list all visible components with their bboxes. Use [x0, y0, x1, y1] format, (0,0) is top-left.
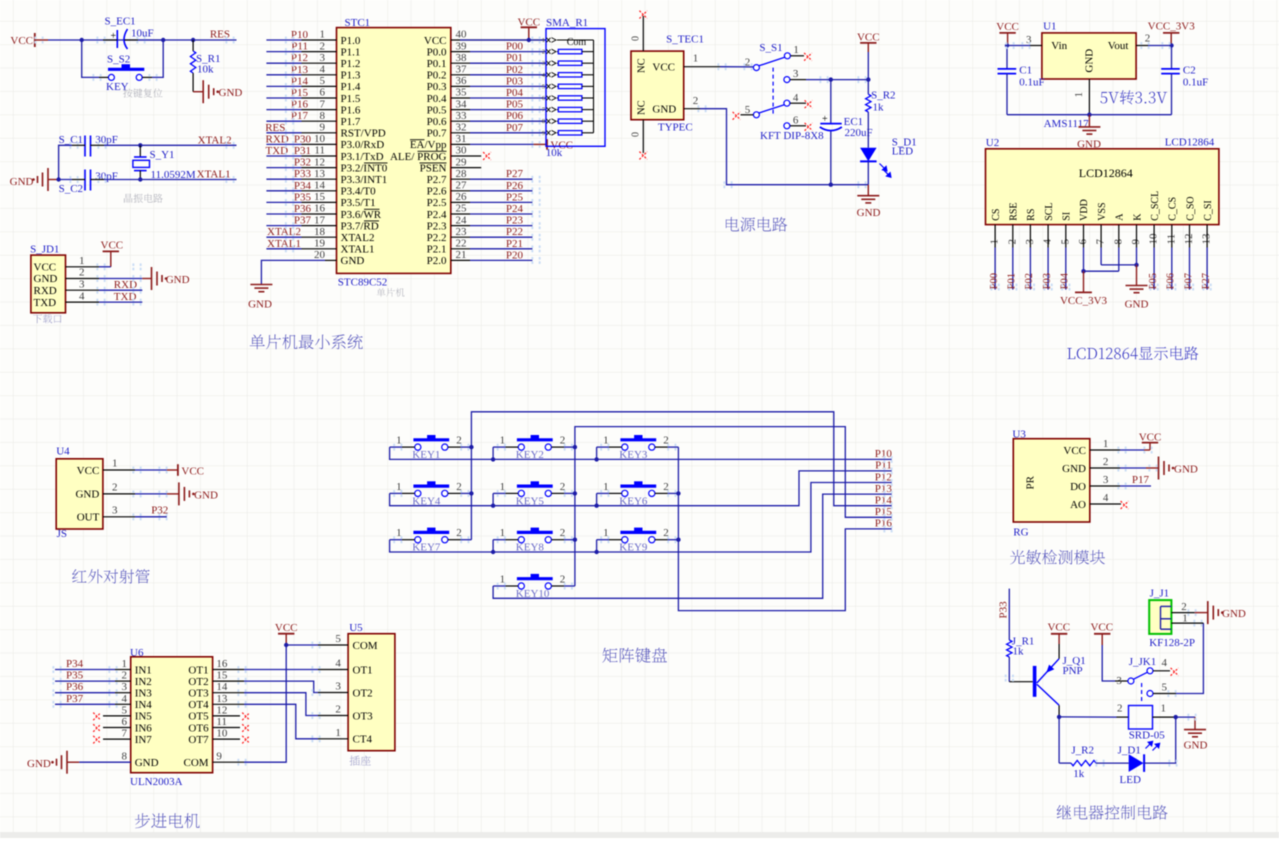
- power port VCC_3V3 (lcd): [1083, 271, 1085, 292]
- pin 3 U4: [103, 516, 135, 518]
- caption 红外对射管: [72, 569, 150, 583]
- caption 单片机最小系统: [250, 334, 363, 349]
- wire KEY7 pin1 leg: [390, 539, 402, 541]
- wire KEY6 drop: [596, 493, 598, 505]
- svg-text:4: 4: [122, 693, 128, 705]
- svg-text:PNP: PNP: [1063, 665, 1083, 677]
- wire KEY2 pin1 leg: [493, 446, 505, 448]
- wire vin left: [1007, 45, 1030, 47]
- ground GND (mcu): [250, 285, 272, 292]
- svg-text:XTAL1: XTAL1: [341, 244, 375, 256]
- svg-text:P1.5: P1.5: [341, 93, 361, 105]
- ground GND (U4): [179, 482, 190, 505]
- svg-text:GND: GND: [75, 489, 99, 501]
- svg-text:SMA_R1: SMA_R1: [546, 17, 588, 29]
- svg-text:2: 2: [1117, 703, 1123, 715]
- svg-text:P2.1: P2.1: [427, 244, 447, 256]
- network common bus: [557, 39, 594, 41]
- svg-text:1: 1: [1182, 612, 1188, 624]
- pin 5 U5: [318, 644, 348, 646]
- pin 1 U4: [103, 469, 135, 471]
- svg-text:3: 3: [122, 681, 128, 693]
- wire collector to coil: [1059, 716, 1116, 718]
- svg-text:10: 10: [314, 133, 326, 145]
- svg-text:4: 4: [79, 290, 85, 302]
- svg-text:P0.2: P0.2: [427, 70, 447, 82]
- wire column1 to P14: [471, 412, 891, 540]
- svg-text:7: 7: [122, 728, 128, 740]
- svg-text:P22: P22: [506, 226, 523, 238]
- wire KEY9 pin2 leg: [668, 539, 679, 541]
- wire vout right: [1148, 45, 1172, 47]
- wire KEY3 drop: [596, 447, 598, 459]
- svg-text:AO: AO: [1070, 499, 1086, 511]
- svg-text:2: 2: [1181, 601, 1187, 613]
- svg-text:P2.7: P2.7: [427, 174, 447, 186]
- svg-text:S_JD1: S_JD1: [30, 243, 59, 255]
- wire P33: [1008, 589, 1010, 640]
- svg-text:P06: P06: [506, 110, 524, 122]
- switch contact 6: [784, 123, 790, 129]
- pin 3 S_JD1: [66, 289, 100, 291]
- switch pole2 common contact 5: [753, 112, 759, 118]
- svg-text:VCC: VCC: [1139, 431, 1162, 443]
- svg-text:VCC: VCC: [181, 465, 204, 477]
- wire KEY7 pin2 leg: [461, 539, 472, 541]
- wire U3 DO P17: [1120, 485, 1151, 487]
- svg-text:P2.5: P2.5: [427, 197, 447, 209]
- svg-text:15: 15: [314, 191, 326, 203]
- svg-text:C_SCL: C_SCL: [1150, 191, 1161, 221]
- wire OT2: [213, 680, 244, 682]
- svg-text:Vin: Vin: [1051, 40, 1067, 52]
- svg-text:SRD-05: SRD-05: [1129, 729, 1166, 741]
- switch pole1 common contact 2: [753, 65, 759, 71]
- wire to GND (relay): [1176, 716, 1195, 718]
- svg-text:P00: P00: [989, 273, 1000, 289]
- pin 1 J_J1: [1171, 622, 1203, 624]
- svg-text:LCD12864: LCD12864: [1165, 136, 1215, 148]
- overbar EA: [410, 139, 425, 141]
- pin 2 U4: [103, 493, 135, 495]
- svg-text:8: 8: [542, 118, 545, 125]
- node junction RES: [191, 38, 195, 42]
- svg-text:2: 2: [79, 267, 85, 279]
- svg-text:Com: Com: [567, 37, 587, 48]
- stubs IN5-IN7 with no-ERC: [103, 715, 131, 717]
- svg-text:P33: P33: [998, 601, 1010, 619]
- node junction VDD: [1081, 269, 1085, 273]
- no-ERC marker contact5: [733, 112, 741, 120]
- wire column3 to P16: [678, 447, 891, 610]
- svg-text:IN5: IN5: [135, 711, 153, 723]
- svg-text:VCC_3V3: VCC_3V3: [1060, 295, 1108, 307]
- pin 0 bottom S_TEC1: [642, 120, 644, 153]
- wire contact5 to J_J1: [1176, 623, 1203, 693]
- pin 0 top S_TEC1: [642, 16, 644, 51]
- svg-text:P21: P21: [506, 238, 523, 250]
- svg-text:30: 30: [456, 145, 468, 157]
- svg-text:LED: LED: [1120, 774, 1141, 786]
- svg-text:1k: 1k: [1073, 768, 1085, 780]
- svg-text:4: 4: [793, 92, 799, 104]
- svg-text:1: 1: [793, 44, 799, 56]
- pins STC1 left wires: [302, 39, 337, 41]
- switch contact 4: [784, 100, 790, 106]
- svg-text:U1: U1: [1043, 21, 1056, 33]
- wire KEY10 pin1 leg: [493, 585, 505, 587]
- svg-text:5: 5: [745, 104, 751, 116]
- svg-text:8: 8: [320, 110, 326, 122]
- svg-text:P3.0/RxD: P3.0/RxD: [341, 139, 385, 151]
- svg-text:5: 5: [320, 75, 326, 87]
- ground GND (lcd): [1136, 265, 1138, 286]
- svg-text:P07: P07: [1183, 273, 1194, 289]
- svg-text:6: 6: [122, 716, 128, 728]
- network pin glyphs: [547, 38, 557, 43]
- ground GND (J_J1): [1208, 601, 1219, 624]
- svg-text:25: 25: [456, 203, 468, 215]
- node junction cap-right: [161, 38, 165, 42]
- wire KEY1 pin2 leg: [461, 446, 472, 448]
- svg-text:17: 17: [314, 214, 326, 226]
- caption LCD12864显示电路: [1067, 346, 1198, 360]
- wire KEY8 pin1 leg: [493, 539, 505, 541]
- caption 单片机: [377, 288, 405, 297]
- svg-text:OT4: OT4: [188, 699, 209, 711]
- svg-text:P27: P27: [506, 168, 524, 180]
- pin 2 J_J1: [1171, 612, 1194, 614]
- svg-text:40: 40: [456, 29, 468, 41]
- wire KEY2 pin2 leg: [564, 446, 575, 448]
- svg-text:2: 2: [320, 40, 326, 52]
- wire VCC to common: [1102, 645, 1115, 681]
- svg-text:36: 36: [456, 75, 468, 87]
- svg-text:P3.4/T0: P3.4/T0: [341, 186, 377, 198]
- svg-text:P1.2: P1.2: [341, 58, 361, 70]
- svg-text:GND: GND: [248, 299, 272, 311]
- svg-text:OT3: OT3: [353, 710, 374, 722]
- svg-text:LED: LED: [892, 145, 913, 157]
- power port VCC (U4): [177, 464, 179, 476]
- svg-text:ULN2003A: ULN2003A: [130, 776, 183, 788]
- svg-text:P3.2/INT0: P3.2/INT0: [341, 162, 388, 174]
- svg-text:OT3: OT3: [188, 688, 209, 700]
- node junction C1 top: [1005, 43, 1009, 47]
- svg-text:GND: GND: [194, 489, 218, 501]
- wire contact3 to VCC node: [806, 79, 868, 81]
- svg-text:P1.0: P1.0: [341, 35, 361, 47]
- svg-text:C2: C2: [1183, 64, 1196, 76]
- svg-text:P0.6: P0.6: [427, 116, 447, 128]
- wire U6 COM to VCC: [213, 761, 244, 763]
- svg-text:OT1: OT1: [188, 664, 208, 676]
- wire KEY8 drop: [492, 540, 494, 552]
- svg-text:1: 1: [320, 29, 326, 41]
- svg-text:P3.5/T1: P3.5/T1: [341, 197, 376, 209]
- no-ERC marker U3 AO: [1121, 501, 1129, 509]
- svg-text:P37: P37: [294, 215, 312, 227]
- svg-text:AMS1117: AMS1117: [1044, 118, 1090, 130]
- node junction crystal gnd: [56, 177, 60, 181]
- svg-text:1: 1: [1161, 703, 1167, 715]
- caption 继电器控制电路: [1057, 805, 1168, 820]
- no-ERC marker contact1: [804, 53, 812, 61]
- svg-text:VCC: VCC: [101, 240, 124, 252]
- wire K pin9: [1136, 248, 1138, 265]
- overbar RD: [364, 220, 379, 222]
- wire OT1: [213, 669, 244, 671]
- ground GND (power): [867, 185, 869, 196]
- svg-text:1k: 1k: [873, 102, 885, 114]
- svg-text:P0.1: P0.1: [427, 58, 447, 70]
- svg-text:ALE/ PROG: ALE/ PROG: [390, 151, 447, 163]
- svg-text:S_S2: S_S2: [107, 54, 130, 66]
- wire KEY9 pin1 leg: [597, 539, 609, 541]
- svg-text:GND: GND: [34, 273, 58, 285]
- overbar WR: [364, 208, 380, 210]
- svg-text:COM: COM: [184, 757, 209, 769]
- svg-text:C_CS: C_CS: [1168, 197, 1179, 221]
- svg-text:P2.2: P2.2: [427, 232, 447, 244]
- svg-text:14: 14: [216, 681, 228, 693]
- node junction C2 top: [1169, 43, 1173, 47]
- svg-text:P37: P37: [66, 693, 84, 705]
- svg-text:3: 3: [320, 52, 326, 64]
- svg-text:KF128-2P: KF128-2P: [1149, 637, 1195, 649]
- network resistor element 6: [557, 109, 558, 111]
- wire VCC to node: [48, 39, 163, 41]
- svg-text:3: 3: [793, 68, 799, 80]
- svg-text:3: 3: [1116, 675, 1122, 687]
- wire J_R1 to base: [1008, 657, 1010, 682]
- svg-text:GND: GND: [1084, 49, 1096, 73]
- relay coil pin 1: [1153, 716, 1176, 718]
- svg-text:10k: 10k: [197, 64, 214, 76]
- network resistor element 8: [557, 132, 558, 134]
- svg-text:VCC_3V3: VCC_3V3: [1148, 21, 1196, 33]
- caption 光敏检测模块: [1010, 550, 1105, 565]
- wire collector branch down: [1058, 717, 1060, 763]
- svg-text:GND: GND: [27, 758, 51, 770]
- svg-text:IN2: IN2: [135, 676, 152, 688]
- wire rail3 to P12: [390, 483, 892, 553]
- svg-text:OT2: OT2: [188, 676, 208, 688]
- svg-text:P25: P25: [506, 191, 524, 203]
- wire U4 gnd: [135, 493, 167, 495]
- svg-text:11: 11: [216, 716, 227, 728]
- svg-text:VCC: VCC: [857, 31, 880, 43]
- svg-text:IN4: IN4: [135, 699, 153, 711]
- svg-text:P17: P17: [1132, 474, 1150, 486]
- wire rail KEY10 to P13: [493, 494, 892, 598]
- svg-text:XTAL2: XTAL2: [341, 232, 375, 244]
- network resistor element 1: [557, 51, 558, 53]
- no-ERC marker relay 4: [1171, 668, 1179, 676]
- svg-text:U5: U5: [349, 622, 363, 634]
- svg-text:GND: GND: [1125, 298, 1149, 310]
- svg-text:1: 1: [693, 53, 699, 65]
- svg-text:P1.7: P1.7: [341, 116, 361, 128]
- svg-text:P07: P07: [506, 122, 524, 134]
- wire KEY8 pin2 leg: [564, 539, 575, 541]
- svg-text:13: 13: [216, 693, 228, 705]
- node junction EC1 top: [829, 77, 833, 81]
- node junctions rail1: [491, 457, 495, 461]
- no-ERC marker contact6: [805, 123, 813, 131]
- caption 步进电机: [135, 813, 200, 828]
- svg-text:P1.6: P1.6: [341, 104, 361, 116]
- svg-text:12: 12: [216, 704, 227, 716]
- svg-text:10uF: 10uF: [131, 28, 154, 40]
- svg-text:4: 4: [1162, 657, 1168, 669]
- svg-text:5: 5: [335, 633, 341, 645]
- svg-text:19: 19: [314, 238, 326, 250]
- svg-text:U2: U2: [986, 137, 999, 149]
- svg-text:11: 11: [314, 145, 325, 157]
- wire XTAL1: [104, 179, 237, 181]
- wire RXD: [99, 289, 142, 291]
- wire rail2 to P11: [390, 471, 892, 506]
- svg-text:S_R2: S_R2: [871, 89, 895, 101]
- svg-text:P02: P02: [1024, 273, 1035, 289]
- wire PSEN stub: [451, 167, 481, 169]
- wire EA/Vpp to VCC: [451, 143, 470, 145]
- svg-text:S_C2: S_C2: [59, 183, 83, 195]
- svg-text:NC: NC: [637, 58, 648, 73]
- network resistor element 3: [557, 74, 558, 76]
- svg-text:GND: GND: [341, 255, 365, 267]
- svg-text:P12: P12: [875, 471, 892, 483]
- svg-text:9: 9: [216, 751, 222, 763]
- node junction K: [1134, 263, 1138, 267]
- svg-text:VCC: VCC: [1090, 622, 1113, 634]
- svg-text:RSE: RSE: [1009, 202, 1020, 220]
- wire U3 AO stub: [1120, 503, 1121, 505]
- overbar PROG: [418, 150, 447, 152]
- svg-text:10: 10: [216, 728, 228, 740]
- pins U2 stubs: [994, 225, 996, 248]
- relay link dashed: [1141, 683, 1143, 703]
- node junction relay pin1: [1174, 715, 1178, 719]
- node junction U5 COM: [284, 643, 288, 647]
- wire GND pin20: [325, 259, 337, 261]
- svg-text:2: 2: [1103, 456, 1109, 468]
- wire led cathode: [1144, 762, 1146, 764]
- svg-text:GND: GND: [857, 207, 881, 219]
- node junction xtal1: [138, 177, 142, 181]
- node junctions column3: [676, 491, 680, 495]
- svg-text:P05: P05: [506, 99, 524, 111]
- node junctions column2: [573, 445, 577, 449]
- svg-text:S_TEC1: S_TEC1: [666, 34, 704, 46]
- pin 4 U5: [318, 669, 348, 671]
- svg-text:VCC: VCC: [275, 622, 298, 634]
- pin 8 U6 GND wire: [79, 761, 131, 763]
- svg-text:XTAL2: XTAL2: [267, 226, 301, 238]
- pin 3 U3: [1090, 485, 1120, 487]
- node junction EC1 bottom: [829, 183, 833, 187]
- svg-text:9: 9: [542, 130, 545, 137]
- svg-text:STC89C52: STC89C52: [338, 277, 388, 289]
- svg-text:1: 1: [542, 37, 545, 44]
- svg-text:J_R2: J_R2: [1071, 745, 1094, 757]
- network resistor element 5: [557, 97, 558, 99]
- svg-text:J_JK1: J_JK1: [1129, 656, 1157, 668]
- svg-text:P2.4: P2.4: [427, 209, 447, 221]
- wires P0.0-P0.7 to network: [451, 51, 470, 53]
- node junctions column1: [469, 445, 473, 449]
- svg-text:27: 27: [456, 180, 468, 192]
- svg-text:3: 3: [79, 278, 85, 290]
- svg-text:KFT DIP-8X8: KFT DIP-8X8: [760, 130, 824, 142]
- svg-text:P01: P01: [506, 52, 523, 64]
- svg-text:32: 32: [456, 122, 467, 134]
- pin 2 U1: [1136, 45, 1148, 47]
- svg-text:P04: P04: [1060, 272, 1071, 289]
- svg-text:RS: RS: [1026, 209, 1037, 221]
- svg-text:P0.5: P0.5: [427, 104, 447, 116]
- svg-text:RST/VPD: RST/VPD: [341, 128, 386, 140]
- svg-text:P0.4: P0.4: [427, 93, 447, 105]
- node junction collector: [1057, 715, 1061, 719]
- pin 1 S_TEC1: [684, 66, 720, 68]
- svg-text:GND: GND: [166, 274, 190, 286]
- wire KEY6 pin2 leg: [668, 492, 679, 494]
- svg-text:EA/Vpp: EA/Vpp: [410, 139, 447, 151]
- node junction xtal2: [138, 143, 142, 147]
- svg-text:P34: P34: [66, 658, 84, 670]
- switch gang link dashed: [772, 68, 774, 115]
- svg-text:26: 26: [456, 191, 468, 203]
- relay switch common: [1128, 678, 1134, 684]
- svg-text:P3.3/INT1: P3.3/INT1: [341, 174, 388, 186]
- svg-text:34: 34: [456, 98, 468, 110]
- overbar INT0: [364, 162, 388, 164]
- relay contact 5: [1147, 691, 1153, 697]
- svg-text:GND: GND: [652, 103, 676, 115]
- svg-text:P04: P04: [506, 87, 524, 99]
- wire VCC stem: [867, 52, 869, 80]
- svg-text:RG: RG: [1013, 527, 1028, 539]
- svg-text:5: 5: [122, 704, 128, 716]
- svg-text:VCC: VCC: [34, 262, 57, 274]
- svg-text:5: 5: [1162, 681, 1168, 693]
- svg-text:J_J1: J_J1: [1150, 588, 1170, 600]
- svg-text:VDD: VDD: [1079, 199, 1090, 221]
- led arrows S_D1: [880, 164, 891, 178]
- svg-text:2: 2: [542, 49, 545, 56]
- svg-text:TYPEC: TYPEC: [658, 122, 693, 134]
- wire button right leg: [152, 40, 163, 77]
- caption 电源电路: [726, 217, 787, 232]
- svg-text:P33: P33: [294, 168, 312, 180]
- svg-text:S_Y1: S_Y1: [150, 149, 175, 161]
- wire KEY10 pin2 leg: [564, 585, 575, 587]
- wire VDD pin6: [1083, 248, 1085, 272]
- wire button left leg: [82, 40, 99, 77]
- wire U4 vcc: [135, 469, 167, 471]
- node junctions rail2: [491, 504, 495, 508]
- svg-text:LCD12864: LCD12864: [1079, 166, 1133, 180]
- svg-text:6: 6: [320, 87, 326, 99]
- node junction U1 gnd: [1087, 113, 1091, 117]
- svg-text:CT4: CT4: [353, 734, 373, 746]
- svg-text:39: 39: [456, 40, 468, 52]
- svg-text:VCC: VCC: [77, 465, 100, 477]
- svg-text:SI: SI: [1062, 212, 1073, 221]
- node junction reset-left: [80, 38, 84, 42]
